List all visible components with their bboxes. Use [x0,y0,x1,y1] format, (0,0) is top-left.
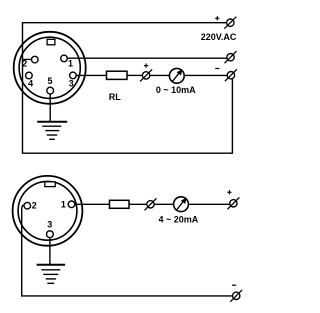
terminal + (meter input) [140,69,152,81]
pin 2 (J2) [24,202,31,209]
wire: 220V.AC loop (top feed, left edge, bottom edge, right edge) [23,23,233,154]
svg-text:2: 2 [32,201,37,211]
terminal 220V.AC neutral [225,51,237,63]
connector J2 inner ring [18,181,77,240]
svg-text:3: 3 [69,79,74,89]
wire: pin1 to neutral terminal [67,57,226,59]
svg-text:220V.AC: 220V.AC [201,32,237,42]
pin 3 (J2) [47,231,54,238]
svg-text:3: 3 [47,220,52,230]
wire: pin5 to ground [49,94,51,122]
wire: J2 pin1 to resistor [75,203,110,205]
terminal + (4-20mA out) [227,197,239,209]
terminal - (meter return) [225,69,237,81]
terminal 220V.AC + (top right) [224,17,236,29]
svg-text:1: 1 [68,59,73,69]
pin 2 (J1) [32,56,39,63]
+ label (4-20mA out) [227,190,231,194]
wire: meter M2 to + terminal [188,203,230,205]
svg-text:0 ~ 10mA: 0 ~ 10mA [156,85,196,95]
wire: J2 pin2 down and along bottom to - terminal [22,205,233,296]
svg-text:4: 4 [28,79,33,89]
connector J2 outer ring [13,176,83,246]
wire: resistor RL to + terminal [127,74,142,76]
wire: resistor to terminal [129,203,147,205]
wire: pin2 stub to left edge [23,58,32,60]
svg-text:4 ~ 20mA: 4 ~ 20mA [159,215,199,225]
- label (meter return) [215,68,219,70]
connector J1 inner ring [19,37,80,98]
svg-text:5: 5 [47,76,52,86]
ground (J2 pin3) [37,265,66,284]
wire: terminal to meter M2 [154,203,174,205]
pin 1 (J2) [68,201,75,208]
+ label (220V.AC positive) [215,16,219,20]
resistor RL [107,71,128,79]
wire: pin3 to resistor RL [76,74,106,76]
svg-text:1: 1 [61,200,66,210]
+ label (meter input) [144,64,148,68]
svg-text:RL: RL [109,92,121,102]
connector J2 keyway [45,182,55,187]
wire: meter M1 to - terminal [184,74,227,76]
terminal - (4-20mA return) [230,290,242,302]
wire: J2 pin3 to ground [49,238,51,265]
pin 1 (J1) [61,55,68,62]
pin 3 (J1) [70,72,77,79]
meter M1 0-10mA [169,68,184,83]
resistor R (4-20mA loop) [110,200,130,208]
connector J1 keyway [47,39,55,45]
wire: terminal to meter M1 [150,74,170,76]
meter M2 4-20mA [174,197,189,212]
connector J1 outer ring [14,32,86,104]
ground (J1 pin5) [37,122,67,140]
- label (4-20mA return) [232,284,236,286]
svg-text:2: 2 [22,59,27,69]
pin 5 (J1) [47,87,54,94]
pin 4 (J1) [26,72,33,79]
terminal (4-20mA loop) [145,198,157,210]
